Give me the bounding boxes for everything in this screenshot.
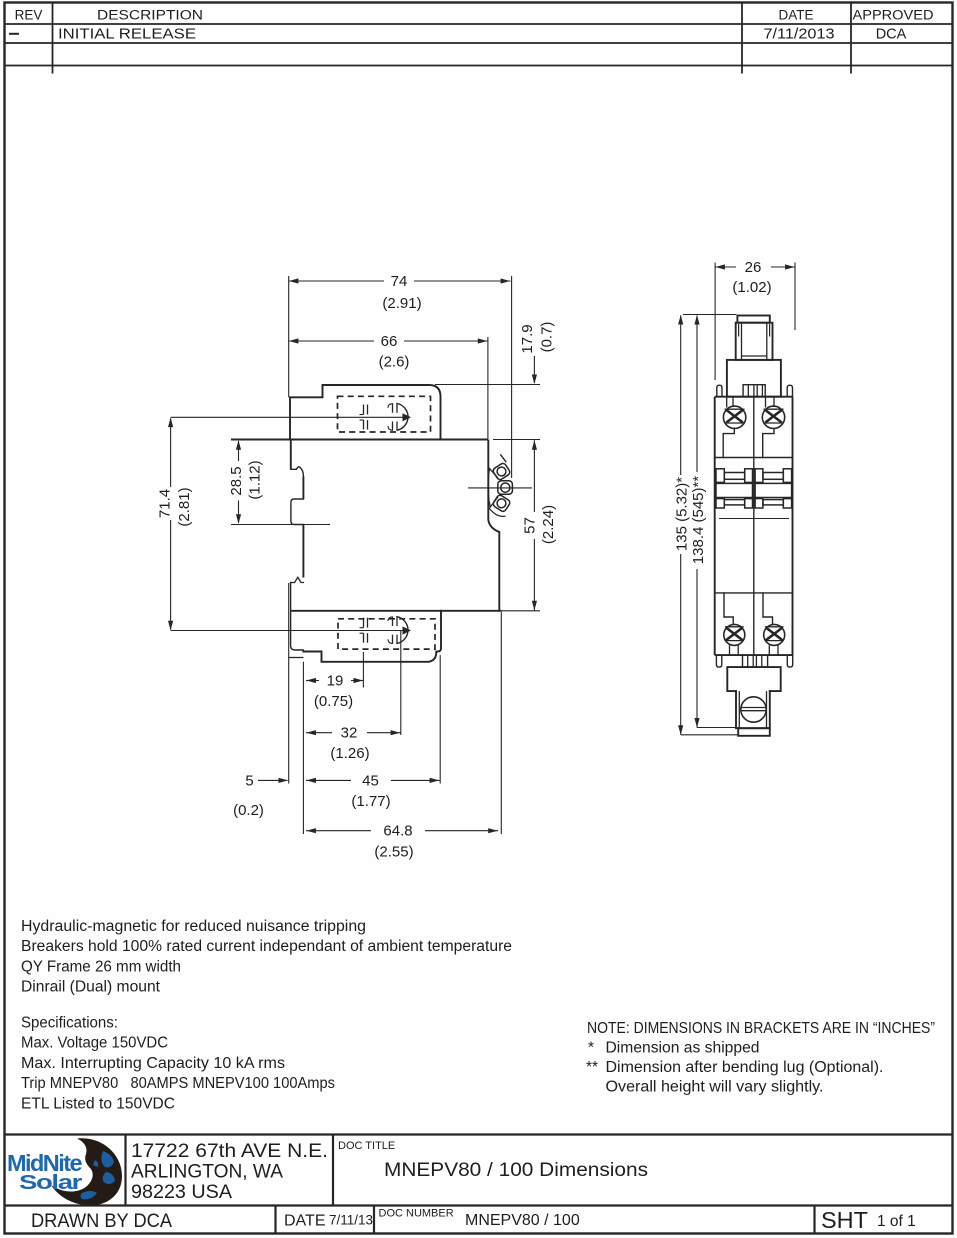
svg-text:DESCRIPTION: DESCRIPTION	[97, 8, 203, 23]
svg-text:Dimension after bending lug (O: Dimension after bending lug (Optional).	[606, 1059, 884, 1076]
svg-text:(2.91): (2.91)	[382, 295, 421, 312]
svg-text:MNEPV80 / 100 Dimensions: MNEPV80 / 100 Dimensions	[384, 1160, 648, 1181]
svg-text:DATE: DATE	[284, 1213, 325, 1230]
svg-text:**: **	[586, 1059, 598, 1076]
svg-text:71.4: 71.4	[157, 489, 174, 518]
svg-text:DOC TITLE: DOC TITLE	[338, 1140, 395, 1152]
svg-text:SHT: SHT	[821, 1207, 868, 1233]
svg-text:(1.77): (1.77)	[351, 793, 390, 810]
svg-text:26: 26	[745, 259, 762, 276]
svg-text:138.4 (545)**: 138.4 (545)**	[690, 476, 707, 565]
svg-text:Specifications:: Specifications:	[21, 1015, 118, 1032]
svg-text:(1.02): (1.02)	[732, 279, 771, 296]
svg-text:(2.24): (2.24)	[540, 505, 557, 544]
svg-text:Hydraulic-magnetic for reduced: Hydraulic-magnetic for reduced nuisance …	[21, 918, 366, 935]
svg-text:Dinrail (Dual) mount: Dinrail (Dual) mount	[21, 979, 161, 996]
svg-text:(0.75): (0.75)	[314, 693, 353, 710]
svg-text:Solar: Solar	[19, 1172, 83, 1194]
svg-text:DATE: DATE	[778, 8, 813, 23]
svg-text:28.5: 28.5	[228, 466, 245, 495]
svg-text:64.8: 64.8	[383, 823, 412, 840]
svg-text:Max. Interrupting Capacity 10: Max. Interrupting Capacity 10 kA rms	[21, 1055, 285, 1072]
svg-text:32: 32	[341, 725, 358, 742]
svg-text:5: 5	[245, 773, 253, 790]
svg-text:APPROVED: APPROVED	[853, 8, 934, 23]
svg-text:17722 67th AVE N.E.: 17722 67th AVE N.E.	[131, 1140, 328, 1162]
svg-text:(0.2): (0.2)	[233, 802, 264, 819]
svg-text:REV: REV	[15, 8, 43, 23]
svg-text:7/11/13: 7/11/13	[329, 1213, 373, 1228]
svg-text:DOC NUMBER: DOC NUMBER	[379, 1208, 454, 1220]
svg-text:Max. Voltage 150VDC: Max. Voltage 150VDC	[21, 1035, 168, 1052]
svg-text:(0.7): (0.7)	[539, 322, 556, 353]
svg-text:45: 45	[362, 772, 379, 789]
svg-text:19: 19	[327, 673, 344, 690]
svg-text:NOTE: DIMENSIONS IN BRACKETS A: NOTE: DIMENSIONS IN BRACKETS ARE IN “INC…	[587, 1020, 935, 1037]
svg-text:1 of 1: 1 of 1	[877, 1213, 916, 1230]
svg-text:DRAWN BY DCA: DRAWN BY DCA	[31, 1211, 172, 1232]
svg-text:135 (5.32)*: 135 (5.32)*	[674, 477, 691, 551]
svg-text:INITIAL RELEASE: INITIAL RELEASE	[58, 27, 196, 43]
svg-text:74: 74	[391, 273, 408, 290]
svg-text:(2.6): (2.6)	[379, 354, 410, 371]
svg-text:(2.81): (2.81)	[176, 487, 193, 526]
svg-text:(1.12): (1.12)	[247, 460, 264, 499]
svg-text:57: 57	[522, 517, 539, 534]
svg-text:Trip MNEPV80 80AMPS MNEPV100: Trip MNEPV80 80AMPS MNEPV100 100Amps	[21, 1075, 335, 1092]
svg-text:MNEPV80 / 100: MNEPV80 / 100	[465, 1212, 580, 1229]
svg-text:ARLINGTON, WA: ARLINGTON, WA	[131, 1161, 283, 1183]
svg-text:Overall height will vary sligh: Overall height will vary slightly.	[606, 1079, 824, 1096]
svg-text:7/11/2013: 7/11/2013	[764, 27, 835, 43]
svg-text:ETL Listed to 150VDC: ETL Listed to 150VDC	[21, 1095, 175, 1112]
svg-text:Breakers hold 100% rated curre: Breakers hold 100% rated current indepen…	[21, 938, 512, 955]
svg-text:(2.55): (2.55)	[374, 844, 413, 861]
svg-text:(1.26): (1.26)	[330, 745, 369, 762]
svg-text:98223 USA: 98223 USA	[131, 1181, 232, 1203]
svg-text:DCA: DCA	[876, 27, 907, 43]
svg-text:66: 66	[381, 333, 398, 350]
svg-text:17.9: 17.9	[519, 324, 536, 353]
svg-text:*: *	[588, 1040, 594, 1057]
svg-text:QY Frame 26 mm width: QY Frame 26 mm width	[21, 958, 181, 975]
svg-text:Dimension as shipped: Dimension as shipped	[606, 1040, 760, 1057]
